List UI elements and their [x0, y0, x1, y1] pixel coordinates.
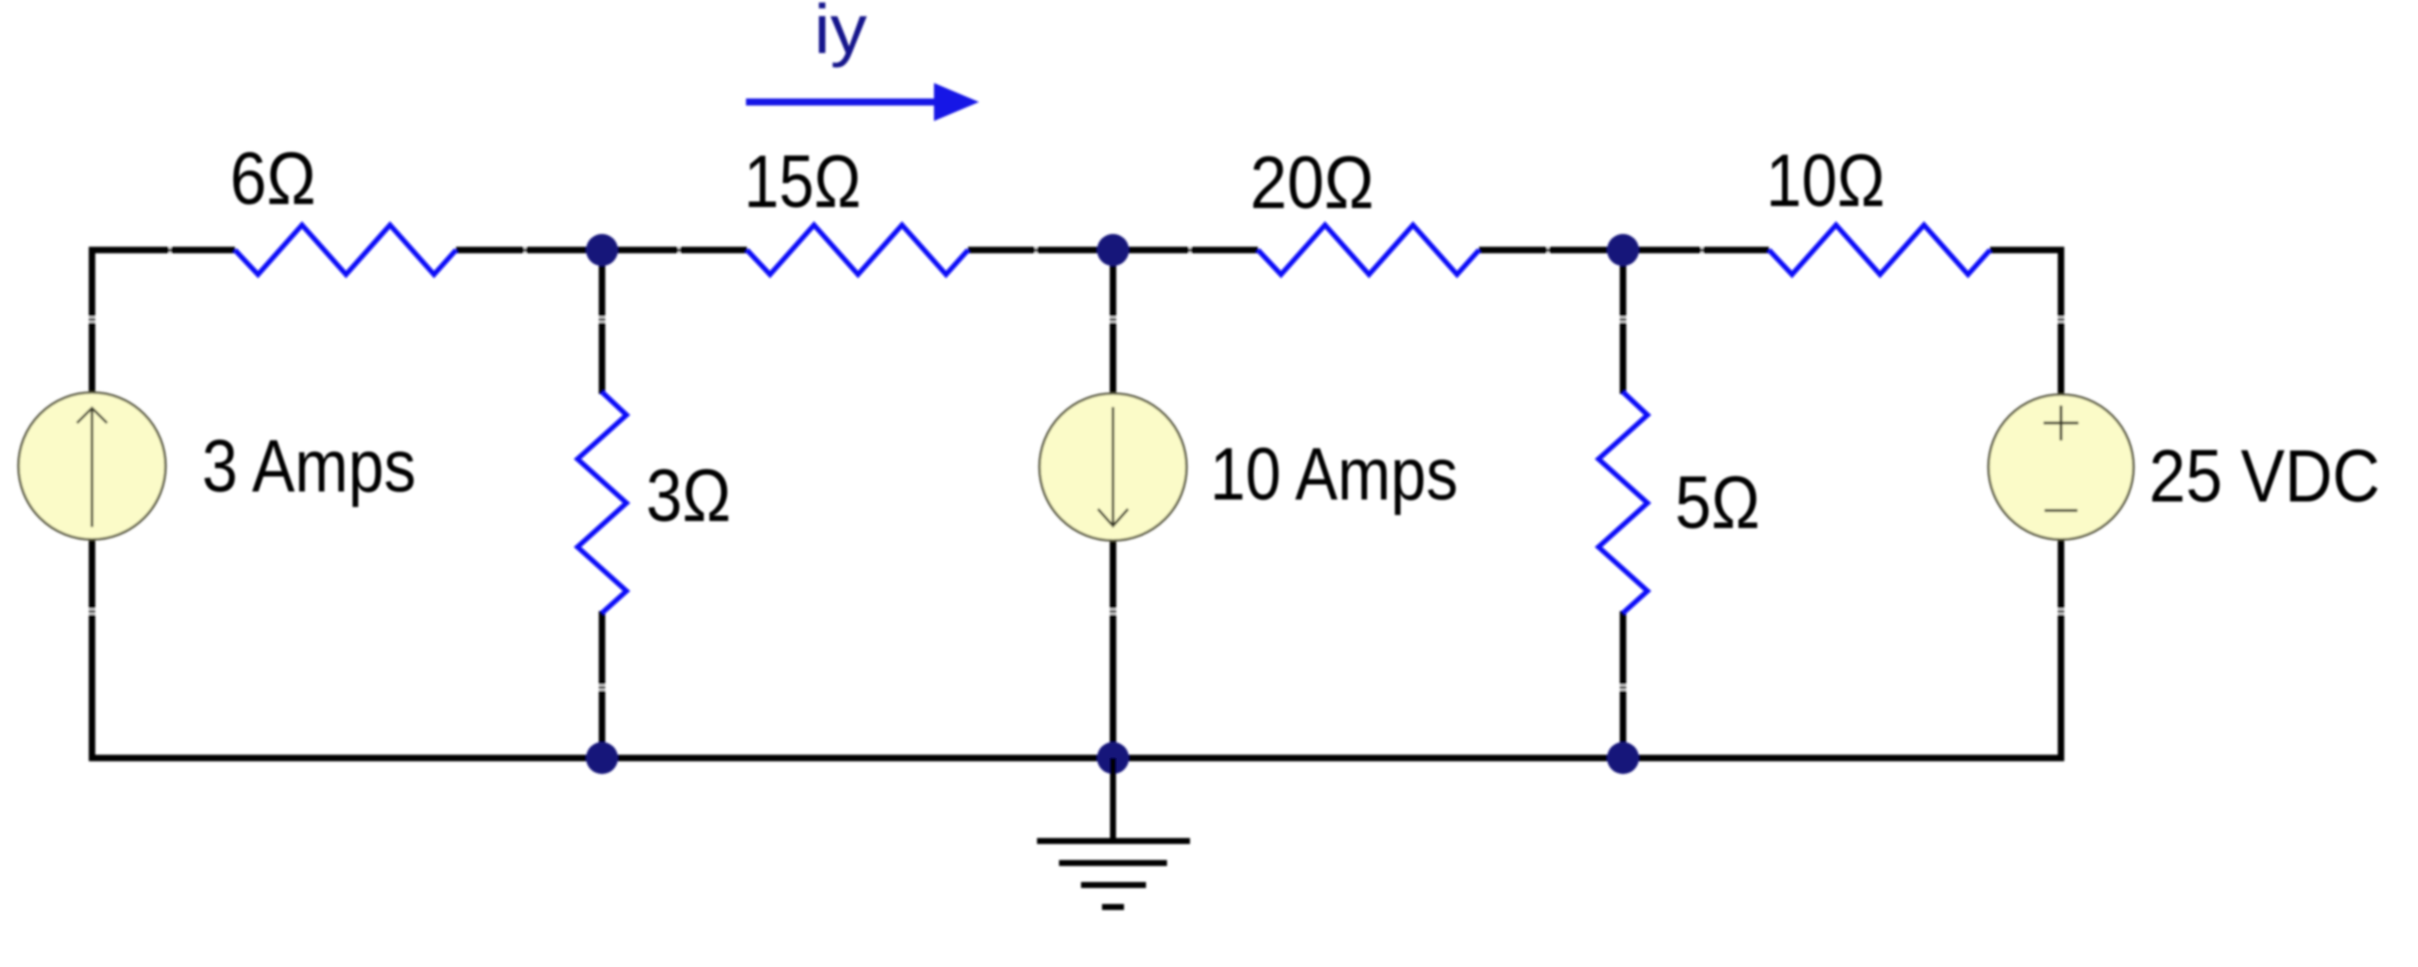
svg-text:20Ω: 20Ω [1250, 141, 1374, 224]
current source I2 arrow down [1112, 407, 1115, 524]
resistor R2 15ohm zigzag [747, 225, 968, 275]
svg-text:25 VDC: 25 VDC [2149, 435, 2380, 518]
wire top rail between 20ohm and 10ohm [1479, 247, 1769, 254]
wire bottom rail [89, 755, 2064, 762]
node F bottom junction at 5ohm [1607, 742, 1639, 774]
current arrow iy [746, 99, 940, 106]
wire right branch below voltage source [2058, 539, 2065, 761]
ground [1037, 758, 1190, 907]
svg-text:6Ω: 6Ω [230, 137, 316, 220]
wire 3ohm branch upper [599, 250, 606, 394]
node D bottom junction at 3ohm [586, 742, 618, 774]
wire joint notches on top rail [169, 246, 1703, 256]
wire joint notches on vertical branches [89, 317, 2065, 691]
resistor R5 3ohm vertical zigzag [578, 392, 627, 613]
resistor R6 5ohm vertical zigzag [1599, 392, 1648, 613]
node C top junction at 5ohm [1607, 234, 1639, 266]
svg-text:5Ω: 5Ω [1675, 461, 1760, 544]
node B top junction at 10A source [1097, 234, 1129, 266]
voltage source V1 minus sign [2045, 509, 2078, 512]
svg-text:10 Amps: 10 Amps [1210, 433, 1458, 516]
resistor R1 6ohm zigzag [235, 225, 456, 275]
current source I1 arrow up [91, 410, 94, 527]
wire top rail between 6ohm and 15ohm [456, 247, 747, 254]
wire 3ohm branch lower [599, 611, 606, 758]
svg-text:3 Amps: 3 Amps [202, 425, 416, 508]
current source I1 3 Amps circle [19, 393, 166, 540]
svg-text:10Ω: 10Ω [1766, 139, 1885, 222]
node A top junction at 3ohm [586, 234, 618, 266]
wire 5ohm branch upper [1620, 250, 1627, 394]
svg-text:iy: iy [814, 0, 867, 68]
resistor R3 20ohm zigzag [1258, 225, 1479, 275]
svg-text:3Ω: 3Ω [646, 454, 731, 537]
node E bottom junction at ground [1097, 742, 1129, 774]
current source I2 10 Amps circle [1040, 394, 1187, 541]
voltage source V1 plus sign [2044, 422, 2079, 425]
wire left branch below current source [89, 538, 96, 761]
wire 10A source branch upper [1110, 250, 1117, 396]
wire top rail between 15ohm and 20ohm [968, 247, 1258, 254]
svg-text:15Ω: 15Ω [744, 140, 861, 223]
wire top rail left corner to R 6ohm [92, 250, 235, 395]
wire 5ohm branch lower [1620, 611, 1627, 758]
voltage source V1 25 VDC circle [1989, 395, 2134, 540]
wire 10A source branch lower [1110, 539, 1117, 758]
resistor R4 10ohm zigzag [1769, 225, 1990, 275]
wire top rail 10ohm to right corner down to voltage source [1990, 250, 2061, 395]
